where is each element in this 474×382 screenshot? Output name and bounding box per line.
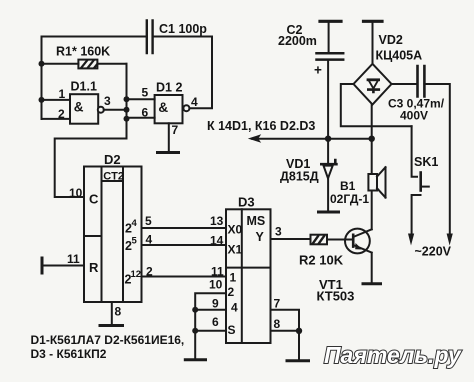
- svg-text:R: R: [89, 260, 99, 275]
- wire bridge AC left loop: [341, 84, 412, 126]
- svg-text:7: 7: [274, 297, 281, 311]
- node pin5 junction: [124, 96, 130, 102]
- op gate D1.1: [70, 80, 104, 124]
- svg-text:~220V: ~220V: [415, 245, 452, 259]
- wire D3 pin9: [195, 297, 226, 311]
- arrow mains right: [447, 234, 453, 246]
- svg-text:14: 14: [210, 234, 224, 248]
- wire bridge minus to speaker: [371, 105, 373, 175]
- svg-text:11: 11: [211, 265, 224, 279]
- arrow mains left: [408, 234, 414, 246]
- terminal common R input: [41, 258, 44, 273]
- wire top rail oscillator: [42, 36, 213, 38]
- speaker B1: [330, 167, 386, 206]
- svg-text:X0: X0: [228, 223, 243, 237]
- svg-text:4: 4: [146, 233, 153, 247]
- svg-text:D1.1: D1.1: [71, 80, 97, 94]
- svg-text:3: 3: [104, 94, 111, 108]
- node VD1 supply junction: [325, 136, 331, 142]
- wire bridge right to C3: [392, 83, 418, 85]
- svg-text:11: 11: [67, 252, 80, 266]
- node R1 left junction: [39, 61, 45, 67]
- wire D2 R input: [42, 252, 84, 266]
- capacitor C1: [147, 21, 208, 54]
- capacitor C3: [388, 66, 445, 123]
- ground D3 left: [185, 358, 205, 361]
- svg-text:2: 2: [228, 285, 235, 299]
- wire to D2 clock input: [55, 139, 127, 198]
- svg-text:MS: MS: [247, 214, 266, 228]
- capacitor C2: [278, 22, 343, 139]
- wire row pin5 to pin13: [142, 214, 227, 228]
- ground D3 right: [287, 359, 309, 362]
- svg-text:Y: Y: [256, 230, 265, 244]
- svg-text:5: 5: [132, 236, 138, 247]
- wire D1.1 pin1: [42, 87, 71, 101]
- svg-text:5: 5: [145, 214, 152, 228]
- wire supply to logic with arrow: [207, 119, 372, 143]
- svg-text:5: 5: [142, 86, 149, 100]
- svg-text:X1: X1: [228, 243, 243, 257]
- switch SK1: [412, 126, 439, 235]
- svg-text:R2 10K: R2 10K: [299, 253, 344, 268]
- svg-text:10: 10: [209, 278, 223, 292]
- op gate D1.2: [155, 81, 190, 124]
- wire D3 pin10: [195, 278, 226, 359]
- node speaker supply junction: [369, 136, 375, 142]
- resistor R1: [42, 45, 127, 69]
- wire D1.1 pin3 output: [104, 94, 127, 110]
- label output 2^5: [125, 236, 138, 254]
- svg-text:1: 1: [59, 87, 66, 101]
- wire D3 pin6: [195, 315, 226, 331]
- svg-text:1: 1: [230, 271, 237, 285]
- svg-text:D1 2: D1 2: [156, 81, 182, 95]
- counter D2: [84, 152, 142, 302]
- node pin8 junction: [296, 328, 302, 334]
- wire row pin4 to pin14: [142, 233, 227, 248]
- terminal common bridge top: [364, 20, 383, 23]
- wire VT1 emitter: [371, 253, 373, 282]
- svg-text:C1 100p: C1 100p: [159, 22, 207, 36]
- svg-text:Д815Д: Д815Д: [280, 170, 319, 184]
- svg-text:12: 12: [131, 269, 142, 280]
- svg-text:КТ503: КТ503: [317, 289, 355, 304]
- node D1.1 pin1 junction: [39, 97, 45, 103]
- node pin6 junction: [192, 328, 198, 334]
- svg-text:2200m: 2200m: [278, 34, 317, 48]
- svg-text:К 14D1, К16 D2.D3: К 14D1, К16 D2.D3: [207, 119, 315, 133]
- svg-text:+: +: [314, 63, 322, 78]
- node pin6 junction: [124, 116, 130, 122]
- multiplexer D3: [226, 195, 271, 344]
- svg-text:B1: B1: [340, 179, 356, 193]
- svg-text:Паятель.ру: Паятель.ру: [324, 342, 462, 368]
- svg-text:9: 9: [212, 297, 219, 311]
- svg-text:КЦ405А: КЦ405А: [376, 49, 423, 63]
- svg-text:7: 7: [172, 123, 179, 137]
- wire D2 pin8: [112, 302, 122, 324]
- svg-text:400V: 400V: [400, 109, 428, 123]
- svg-text:02ГД-1: 02ГД-1: [330, 192, 369, 206]
- wire D1.2 pin4 output to C1: [190, 37, 212, 110]
- wire bridge top: [372, 22, 374, 64]
- wire D1.2 pin6: [127, 106, 155, 120]
- svg-text:2: 2: [146, 265, 153, 279]
- terminal common C2 top: [320, 20, 341, 23]
- wire D3 Y output pin3: [271, 225, 311, 240]
- wire C3 to mains right: [424, 84, 449, 235]
- svg-text:S: S: [228, 323, 236, 337]
- svg-text:SK1: SK1: [414, 155, 438, 169]
- svg-text:4: 4: [231, 301, 238, 315]
- node pin9 junction: [192, 307, 198, 313]
- svg-text:13: 13: [210, 214, 224, 228]
- svg-text:8: 8: [115, 305, 122, 319]
- svg-text:CT2: CT2: [103, 171, 124, 183]
- svg-text:4: 4: [132, 218, 138, 229]
- svg-text:8: 8: [274, 317, 281, 331]
- wire D1.1 pin2: [42, 107, 71, 121]
- ground VT1 emitter: [363, 282, 381, 285]
- svg-text:D1-К561ЛА7 D2-К561ИЕ16,: D1-К561ЛА7 D2-К561ИЕ16,: [31, 333, 185, 347]
- wire middle vertical node B: [126, 64, 128, 139]
- svg-text:D3 - К561КП2: D3 - К561КП2: [31, 347, 107, 361]
- svg-text:D2: D2: [104, 152, 121, 167]
- svg-text:3: 3: [275, 225, 282, 239]
- wire D3 pin7: [271, 297, 300, 331]
- resistor R2: [299, 235, 353, 268]
- wire row pin2 to pin11: [142, 265, 227, 279]
- ground D1.2 pin7: [158, 151, 179, 154]
- svg-text:10: 10: [69, 186, 83, 200]
- svg-text:&: &: [158, 100, 168, 115]
- svg-text:C: C: [89, 192, 99, 207]
- svg-text:VD2: VD2: [379, 33, 403, 47]
- transistor VT1: [317, 229, 372, 304]
- label output 2^4: [125, 218, 138, 236]
- wire D3 pin8: [271, 317, 300, 359]
- svg-text:&: &: [74, 100, 84, 115]
- svg-text:6: 6: [142, 106, 149, 120]
- diode bridge VD2: [354, 33, 423, 105]
- svg-text:2: 2: [58, 107, 65, 121]
- wire D1.2 pin7: [169, 123, 179, 151]
- terminal common VD1 bottom: [319, 211, 339, 214]
- wire D1.2 pin5: [127, 86, 155, 100]
- svg-text:4: 4: [191, 95, 198, 109]
- svg-text:6: 6: [212, 315, 219, 329]
- svg-text:R1* 160K: R1* 160K: [56, 45, 110, 59]
- ground D2 pin8: [100, 324, 123, 327]
- svg-text:D3: D3: [238, 195, 255, 210]
- label output 2^12: [125, 269, 142, 287]
- wire left vertical: [41, 37, 43, 120]
- wire VT1 collector: [371, 191, 373, 230]
- zener VD1: [280, 139, 336, 211]
- node pin3 junction: [124, 107, 130, 113]
